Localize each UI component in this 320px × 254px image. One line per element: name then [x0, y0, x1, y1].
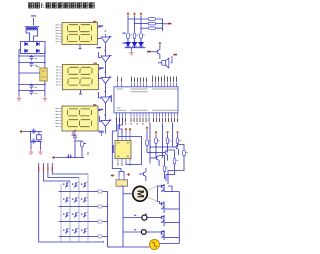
designator DS1 [93, 21, 96, 22]
LED2 [132, 40, 137, 47]
labels beside drivers [105, 31, 107, 116]
MCU top pin labels [117, 77, 177, 82]
wire rung1 [19, 55, 45, 57]
capacitor reset [73, 134, 77, 139]
wire xtal top [24, 131, 43, 133]
diode D4 [36, 49, 39, 53]
LED indicator section [125, 16, 168, 51]
buttons row4 [64, 229, 68, 234]
wire buzzer base [152, 51, 158, 53]
crystal Y1 [37, 135, 42, 140]
wire tap1 [128, 18, 148, 20]
wire drv4 base [99, 92, 102, 98]
diode D1 [25, 42, 28, 46]
wire tap2 [135, 23, 149, 25]
pin DS3 bottom [72, 131, 74, 135]
wire mleft3 [48, 163, 79, 178]
capacitor C2 [30, 62, 34, 67]
capacitor xtal1 [32, 128, 36, 133]
net label right of DS2 [99, 68, 102, 70]
resistor R1 [127, 33, 130, 38]
red tick right [88, 152, 89, 155]
buttons row2 [64, 198, 68, 203]
LED3 [139, 40, 144, 47]
resistor R2 [133, 33, 136, 38]
power marks leds [127, 13, 129, 16]
diode D3 [25, 49, 28, 53]
designator DS3 [93, 104, 96, 105]
buzzer LS1 [162, 56, 172, 68]
wire secondary right [34, 30, 38, 42]
designator text [111, 95, 112, 102]
U2 pin labels below [118, 163, 131, 166]
display DS1 [62, 23, 98, 45]
regulator U4 7805 [40, 68, 47, 81]
key matrix [39, 163, 104, 242]
junction dots supply [18, 55, 45, 91]
cascade resistors [183, 151, 186, 156]
pins DS3 [59, 109, 63, 127]
capacitor C4 [30, 90, 34, 95]
transistor Q2 [101, 53, 110, 65]
tiny component labels [68, 35, 188, 229]
red arrows beside U3 [111, 174, 130, 177]
wire led col1 [127, 16, 129, 33]
indicator circle 2 [141, 230, 146, 235]
wire led col2 [134, 16, 136, 33]
wire rung4 [19, 84, 45, 86]
resistor R3 [140, 33, 143, 38]
wire led col3 [140, 16, 142, 33]
ground leds [129, 51, 134, 56]
diode D2 [36, 42, 39, 46]
pins DS2 [59, 67, 63, 85]
red label row under bottom pins [125, 123, 143, 125]
resistor pullup4 [146, 140, 149, 145]
wire rung5 [19, 90, 45, 92]
transistor QD near motor [144, 172, 146, 177]
wire from DS1 right + label [98, 26, 101, 28]
transistor Q4 [101, 94, 110, 106]
row lines [59, 192, 99, 237]
wire led rail [125, 48, 146, 51]
bridge rectifier box [21, 42, 46, 54]
cascade transistor QB [165, 150, 167, 155]
power ports above U2 [125, 128, 127, 131]
row bus right [103, 192, 111, 248]
cascade transistor QA [176, 145, 178, 150]
U2 pins [118, 134, 130, 163]
wire mleft1 [39, 163, 104, 242]
resistor R5 [148, 22, 155, 25]
capacitor C3 [30, 84, 34, 89]
title 附录1:系统电路原理图 [29, 3, 34, 8]
label 220V [31, 15, 36, 16]
transformer T1 [26, 26, 38, 27]
reset circuit [74, 130, 76, 133]
cascade transistor QC [157, 156, 159, 161]
ground right [43, 97, 48, 102]
motor M [133, 186, 147, 201]
wire drv links [105, 46, 107, 53]
transistor Q3 [101, 75, 110, 87]
resistors pullup [155, 138, 158, 143]
wire secondary left [26, 30, 30, 42]
wire left rail [18, 50, 20, 97]
transistor Q6 [158, 49, 160, 54]
pin DS1 bottom [79, 45, 81, 49]
output transistors column [161, 184, 164, 238]
net flag right of DS3 bottom [99, 132, 105, 136]
relay box U3 [116, 177, 128, 187]
wire res right join [156, 19, 163, 31]
pin DS2 bottom [80, 90, 82, 94]
capacitor xtal2 [32, 138, 36, 143]
resistor reset [81, 142, 84, 147]
wire mleft2 [44, 163, 71, 181]
cap labels [35, 58, 38, 94]
lamp [150, 240, 160, 250]
wires MCU to U2 + routing loop [112, 117, 141, 176]
net arrow left [20, 130, 24, 132]
buttons row3 [64, 213, 68, 218]
small blue marks [134, 214, 163, 235]
pale column rails [61, 174, 88, 242]
transistor Q5 [101, 118, 110, 130]
crystal circuit [24, 132, 43, 150]
wire mleft4 [52, 163, 88, 174]
red accents top labels [117, 75, 165, 77]
resistor R6 [148, 27, 155, 30]
label 7805 [36, 66, 39, 67]
red ticks matrix [38, 167, 53, 172]
wire drv1 base [98, 38, 102, 40]
label P37 [147, 51, 152, 53]
wire primary stub [33, 18, 35, 26]
wire drops [30, 142, 32, 150]
ground left [17, 97, 22, 102]
ground xtal1 [29, 150, 34, 155]
wire xtal left drop [31, 132, 43, 142]
pins DS1 [59, 25, 63, 42]
ground xtal2 [38, 150, 43, 155]
left buses bottom right [108, 186, 162, 247]
motor leads [147, 186, 158, 202]
transistor Q1 [101, 34, 110, 46]
designator DS2 [94, 63, 97, 64]
timer IC U2 [115, 141, 131, 159]
row connectors [98, 190, 102, 193]
right rail [160, 186, 180, 244]
wire drv5 base [100, 116, 102, 122]
wire right rail [44, 50, 46, 97]
buttons row1 [64, 183, 68, 188]
resistor R4 [148, 18, 155, 21]
net arrow reset [53, 156, 57, 158]
MCU U1 [114, 87, 178, 113]
motor driver grid [150, 123, 178, 164]
motor lead junction wires [158, 186, 162, 204]
wire rung2 [19, 62, 45, 64]
svg-text:M: M [135, 190, 146, 198]
indicator circle 1 [142, 215, 147, 220]
display DS3 [62, 106, 98, 131]
label R [84, 143, 86, 144]
wire drv2 base [99, 52, 102, 58]
MCU inner pin numbers [117, 89, 178, 111]
power supply section [21, 18, 46, 54]
capacitor reset2 [67, 154, 72, 158]
wire rung3 [19, 72, 40, 74]
display DS2 [63, 64, 99, 90]
label net red [168, 23, 172, 25]
MCU bottom pins [117, 113, 178, 118]
wire drv3 base [99, 73, 102, 79]
wire tap3 [141, 27, 148, 29]
net label right of DS3 [98, 110, 101, 112]
4th pullup column [146, 127, 148, 130]
capacitor C1 [30, 55, 34, 60]
LED1 [126, 40, 131, 47]
MCU top pins [118, 83, 177, 87]
MCU bottom pin labels [116, 118, 178, 122]
